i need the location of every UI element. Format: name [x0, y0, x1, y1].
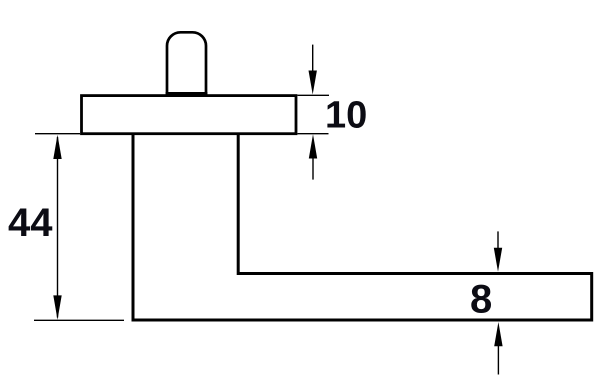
dimension line 10 lower segment — [312, 157, 314, 180]
arrowhead 10 down — [309, 71, 317, 95]
svg-text:44: 44 — [8, 201, 53, 245]
spindle button on top of rosette — [167, 32, 206, 95]
dimension line 8 upper segment — [497, 231, 499, 249]
rosette plate rectangle — [82, 96, 297, 134]
dimension line 44 — [57, 137, 59, 318]
dimension line 8 lower segment — [497, 345, 499, 375]
dimension line 10 upper segment — [312, 45, 314, 72]
spindle bottom edge — [166, 92, 208, 95]
extension line bottom-left (44 lower) — [34, 319, 124, 321]
arrowhead 10 up — [309, 134, 317, 158]
arrowhead 44 up — [53, 135, 61, 159]
svg-text:8: 8 — [470, 278, 492, 322]
extension line top-left (44 upper) — [35, 133, 80, 135]
svg-text:10: 10 — [325, 95, 367, 137]
extension line right of plate bottom (10 lower) — [298, 133, 329, 135]
handle L-profile (neck + lever arm) — [133, 134, 592, 320]
arrowhead 8 down — [494, 248, 502, 272]
extension line right of plate top (10 upper) — [298, 94, 330, 96]
arrowhead 8 up — [494, 322, 502, 346]
arrowhead 44 down — [53, 295, 61, 319]
